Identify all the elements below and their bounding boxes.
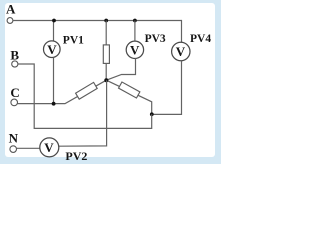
terminal B — [12, 61, 18, 67]
wire B-junction to terminal B — [18, 64, 152, 128]
wire PV3 bottom lead to star point — [106, 58, 135, 80]
label PV4 — [190, 33, 211, 45]
node A-PV1 junction — [52, 19, 56, 23]
svg-text:PV1: PV1 — [63, 35, 84, 47]
voltmeter PV2 — [40, 138, 59, 157]
svg-text:V: V — [44, 140, 54, 155]
node B-branch junction — [150, 112, 154, 116]
voltmeter PV3 — [126, 41, 143, 58]
label PV3 — [145, 33, 166, 45]
node star point — [104, 78, 108, 82]
resistor phase-B — [119, 82, 140, 98]
wire resistor-A top lead — [105, 21, 107, 46]
terminal C — [11, 99, 18, 106]
label B — [10, 47, 19, 62]
wire PV3 top lead — [134, 21, 136, 42]
svg-text:PV4: PV4 — [190, 33, 211, 45]
svg-text:PV2: PV2 — [65, 149, 87, 163]
label C — [10, 85, 19, 100]
svg-text:A: A — [6, 1, 16, 16]
wire PV4 drop from bus — [181, 20, 183, 43]
wire phase-B diagonal branch — [106, 80, 151, 114]
svg-text:N: N — [9, 130, 19, 145]
node A-resistor junction — [104, 19, 108, 23]
label N — [9, 130, 19, 145]
svg-text:PV3: PV3 — [145, 33, 166, 45]
wire neutral vertical to star point — [59, 80, 107, 146]
resistor phase-A — [103, 45, 109, 64]
wire PV1 bottom lead — [53, 58, 55, 104]
voltmeter PV4 — [172, 42, 190, 60]
wire phase-C to star point — [18, 80, 107, 103]
svg-text:V: V — [130, 42, 140, 57]
terminal A — [7, 18, 13, 24]
resistor phase-C — [76, 82, 98, 99]
node C-PV1 junction — [52, 102, 56, 106]
label PV1 — [63, 35, 84, 47]
label PV2 — [65, 149, 87, 163]
node A-PV3 junction — [133, 19, 137, 23]
svg-text:C: C — [10, 85, 19, 100]
svg-text:B: B — [10, 47, 19, 62]
voltmeter PV1 — [44, 41, 61, 58]
wire PV4 bottom lead — [152, 61, 182, 115]
wire N to PV2 — [17, 147, 40, 149]
label A — [6, 1, 16, 16]
svg-text:V: V — [47, 42, 57, 57]
wire PV1 top lead — [53, 21, 55, 42]
svg-text:V: V — [176, 44, 186, 59]
wire resistor-A bottom lead — [105, 63, 107, 80]
wire phase-A bus — [13, 20, 182, 22]
terminal N — [10, 146, 17, 153]
